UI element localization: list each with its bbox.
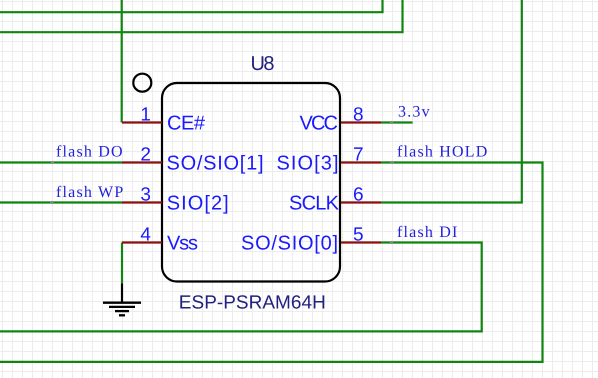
pin 4 name Vss <box>167 232 198 254</box>
svg-text:flash DO: flash DO <box>56 143 124 160</box>
svg-text:SO/SIO[1]: SO/SIO[1] <box>167 152 264 174</box>
pin 6 name SCLK <box>289 192 340 214</box>
pin 1 <box>122 121 162 123</box>
svg-text:SCLK: SCLK <box>289 192 340 214</box>
pin 5 <box>341 241 381 243</box>
value label ESP-PSRAM64H <box>179 293 326 314</box>
pin 8 <box>341 121 381 123</box>
wire <box>0 163 543 362</box>
svg-text:2: 2 <box>140 144 151 165</box>
wire <box>381 0 522 203</box>
wire <box>381 121 413 123</box>
svg-text:ESP-PSRAM64H: ESP-PSRAM64H <box>179 293 326 314</box>
svg-text:7: 7 <box>353 144 364 165</box>
pin 8 name VCC <box>300 112 339 134</box>
pin-1 indicator circle <box>133 74 151 92</box>
wire <box>0 0 383 12</box>
node anchor dot flash DI <box>390 241 393 244</box>
svg-text:5: 5 <box>353 224 364 245</box>
pin 7 <box>341 161 381 163</box>
pin 3 <box>122 201 162 203</box>
svg-text:3: 3 <box>140 184 151 205</box>
svg-text:1: 1 <box>140 104 151 125</box>
wire <box>0 243 482 332</box>
pin 8 number <box>353 104 364 125</box>
pin 3 name SIO[2] <box>167 192 229 214</box>
svg-text:CE#: CE# <box>167 112 206 134</box>
pin 2 <box>122 161 162 163</box>
ground <box>103 283 141 315</box>
pin 4 <box>122 241 162 243</box>
wire <box>121 243 123 284</box>
svg-text:Vss: Vss <box>167 232 198 254</box>
pin 2 name SO/SIO[1] <box>167 152 264 174</box>
pin 7 number <box>353 144 364 165</box>
node anchor dot flash DO <box>51 161 54 164</box>
pin 1 number <box>140 104 151 125</box>
svg-text:SO/SIO[0]: SO/SIO[0] <box>241 232 338 254</box>
net label 3.3v <box>398 104 431 121</box>
node anchor dot 3.3v <box>390 121 393 124</box>
wire <box>0 0 403 32</box>
pin 4 number <box>140 224 151 245</box>
pin 6 number <box>353 184 364 205</box>
svg-text:flash DI: flash DI <box>397 224 459 241</box>
svg-text:flash WP: flash WP <box>56 184 124 201</box>
net label flash DI <box>397 224 459 241</box>
svg-text:4: 4 <box>140 224 151 245</box>
net label flash HOLD <box>397 144 489 161</box>
node anchor dot flash WP <box>50 201 53 204</box>
net label flash WP <box>56 184 124 201</box>
svg-text:U8: U8 <box>251 53 275 75</box>
net label flash DO <box>56 143 124 160</box>
pin 1 name CE# <box>167 112 206 134</box>
pin 5 name SO/SIO[0] <box>241 232 338 254</box>
pin 7 name SIO[3] <box>277 152 339 174</box>
svg-text:6: 6 <box>353 184 364 205</box>
svg-text:VCC: VCC <box>300 112 339 134</box>
svg-text:3.3v: 3.3v <box>398 104 431 121</box>
wire <box>0 201 122 203</box>
reference designator U8 <box>251 53 275 75</box>
svg-text:flash HOLD: flash HOLD <box>397 144 489 161</box>
op-amp U1 body: IC U8 ESP-PSRAM64H <box>162 83 340 282</box>
node anchor dot flash HOLD <box>390 161 393 164</box>
wire <box>121 0 123 123</box>
svg-text:8: 8 <box>353 104 364 125</box>
pin 5 number <box>353 224 364 245</box>
pin 6 <box>341 201 381 203</box>
svg-text:SIO[2]: SIO[2] <box>167 192 229 214</box>
svg-text:SIO[3]: SIO[3] <box>277 152 339 174</box>
wire <box>0 161 122 163</box>
pin 2 number <box>140 144 151 165</box>
pin 3 number <box>140 184 151 205</box>
